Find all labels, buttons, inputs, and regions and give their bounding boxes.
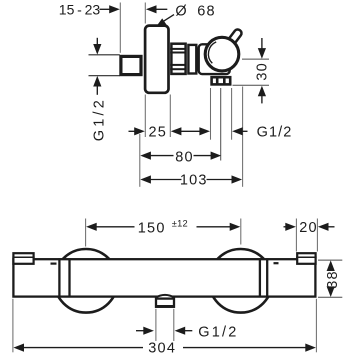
dim 103 left arrow: [140, 175, 151, 183]
left escutcheon circle: [54, 249, 118, 313]
dim 304 left arrow: [13, 344, 24, 352]
cartridge housing: [188, 45, 196, 74]
bottom outlet union: [156, 299, 174, 307]
dim 25 left outside arrow: [129, 130, 137, 132]
dim 30 down arrow: [261, 38, 263, 49]
dim 30 top tick: [242, 58, 269, 60]
svg-text:150: 150: [138, 220, 166, 236]
dim 304 ext left: [12, 299, 14, 353]
dim 150 left arrow: [86, 223, 97, 231]
dim 15-23 right outside arrow: [146, 5, 157, 13]
ext line: wall-union left face: [119, 3, 121, 53]
mixer bar body: [13, 259, 315, 296]
svg-text:304: 304: [148, 340, 176, 356]
ext line: outlet center: [220, 88, 222, 161]
dim 30 up arrow: [258, 86, 266, 97]
knurled union nut: [171, 44, 185, 74]
dim 304 ext right: [315, 299, 317, 353]
left handle scale mark: [51, 263, 57, 265]
bottom outlet ext right: [173, 309, 175, 341]
ext line: knob front face: [242, 87, 244, 187]
svg-text:15 - 23: 15 - 23: [59, 1, 101, 17]
right handle grip tab: [297, 253, 315, 264]
svg-text:20: 20: [299, 220, 318, 236]
svg-text:25: 25: [149, 124, 168, 140]
outlet dome bulge: [155, 295, 175, 298]
ext line: outlet right edge: [231, 88, 233, 140]
dim 38 bottom tick: [318, 296, 342, 298]
right escutcheon circle: [209, 249, 273, 313]
knob inner arc: [208, 42, 216, 63]
dim 80 left arrow: [140, 152, 151, 160]
dim G1/2 outlet outside arrow: [232, 127, 243, 135]
dim 38 down arrow: [327, 286, 335, 297]
dim 38 up arrow: [327, 260, 335, 271]
dim 103 right arrow: [207, 179, 234, 181]
dim 304 right arrow: [183, 347, 308, 349]
union height dim: up arrow: [93, 76, 101, 87]
escutcheon (side view): [145, 26, 168, 93]
svg-text:G1/2: G1/2: [91, 97, 107, 141]
union height dim: down arrow: [96, 38, 98, 45]
wall union square fitting: [121, 56, 141, 74]
left handle base band: [58, 258, 60, 297]
valve body: [199, 44, 230, 74]
svg-text:103: 103: [180, 172, 208, 188]
dim 150 ext left: [85, 219, 87, 247]
ext line: escutcheon rear lower: [144, 95, 146, 138]
dim 20 ext right: [316, 219, 318, 252]
dim 20 left outside arrow: [284, 226, 289, 228]
svg-text:38: 38: [325, 270, 341, 289]
ext line: escutcheon rear face upper: [144, 3, 146, 24]
union bottom tick: [89, 75, 120, 77]
right handle base band: [259, 258, 261, 297]
svg-text:±12: ±12: [172, 219, 188, 229]
dim 80 right arrow: [194, 155, 213, 157]
svg-text:80: 80: [175, 149, 194, 165]
svg-text:G1/2: G1/2: [257, 125, 293, 141]
dim 150 ext right: [240, 219, 242, 245]
svg-text:30: 30: [254, 62, 270, 81]
dim 38 top tick: [318, 259, 342, 261]
ext line: outlet left edge: [210, 88, 212, 140]
dim G1/2 left outside arrow: [136, 330, 145, 332]
dim 20 ext left: [295, 219, 297, 252]
leader line for diameter 68: [162, 15, 174, 23]
right handle scale mark: [274, 262, 279, 264]
handle lever nub: [227, 28, 242, 45]
shower outlet (side view): [212, 77, 231, 84]
ext line: wall face: [139, 134, 141, 187]
dim 25 / G12 shared outside arrows: [171, 127, 182, 135]
svg-text:G1/2: G1/2: [198, 325, 238, 341]
dim 30 bottom tick: [233, 84, 270, 86]
left handle grip tab: [13, 253, 33, 264]
dim G1/2 right outside arrow: [175, 327, 186, 335]
svg-text:Ø 68: Ø 68: [175, 3, 215, 19]
dim 15-23 left outside arrow: [100, 8, 112, 10]
control knob: [205, 37, 239, 71]
dim 20 right outside arrow: [318, 223, 329, 231]
union top tick: [89, 54, 120, 56]
nut knurl lines: [170, 48, 185, 50]
bottom outlet ext left: [155, 309, 157, 341]
dim 150 right arrow: [197, 226, 233, 228]
ext line: escutcheon front lower: [169, 95, 171, 138]
